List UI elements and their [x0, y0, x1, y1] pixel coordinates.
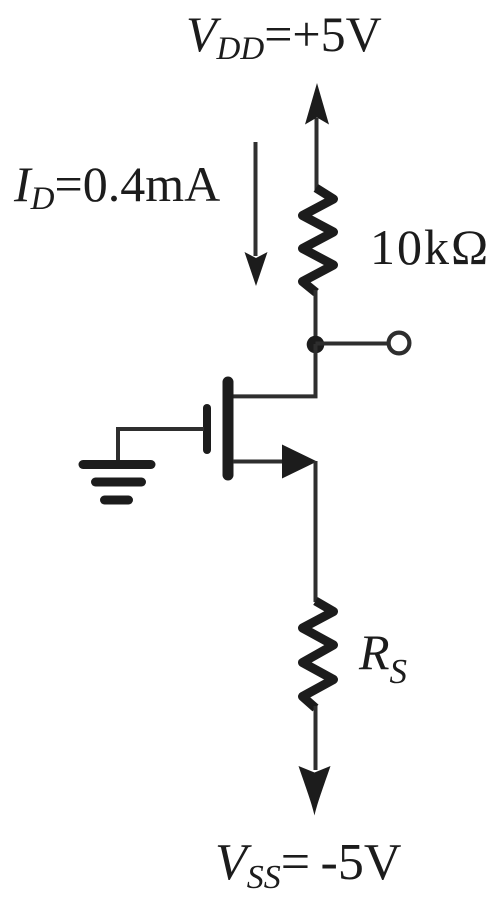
wire: resistor RD to drain node — [314, 290, 318, 344]
current arrow ID (pointing down) — [245, 142, 268, 286]
net label VSS: V_SS= -5V — [215, 834, 401, 896]
svg-text:VSS= -5V: VSS= -5V — [215, 834, 401, 896]
wire: drain lead from node down and left to MOSFET channel — [232, 344, 316, 396]
wire: resistor RS to VSS with downward arrowhead — [299, 706, 331, 816]
output terminal (open circle) — [389, 333, 410, 354]
svg-text:10kΩ: 10kΩ — [370, 219, 490, 275]
value label 10kOhm — [370, 219, 490, 275]
net label VDD: V_DD=+5V — [186, 6, 382, 67]
value label R_S — [358, 624, 407, 691]
wire: source down to resistor RS — [314, 461, 318, 602]
wire: node to output terminal — [316, 342, 390, 346]
wire: gate lead to ground — [118, 429, 204, 462]
transistor M1 gate bar — [203, 408, 211, 450]
resistor RD (drain resistor, zigzag) — [303, 188, 334, 293]
transistor M1 (MOSFET) channel bar — [223, 382, 234, 475]
node: drain output junction (filled dot) — [307, 336, 325, 354]
wire: drain-supply lead to VDD with upward arrowhead — [305, 83, 329, 191]
current label: I_D=0.4mA — [13, 156, 220, 217]
resistor RS (source resistor, zigzag) — [303, 601, 334, 708]
transistor M1 source lead with arrowhead — [233, 445, 317, 479]
svg-text:VDD=+5V: VDD=+5V — [186, 6, 382, 67]
ground symbol — [83, 465, 151, 501]
